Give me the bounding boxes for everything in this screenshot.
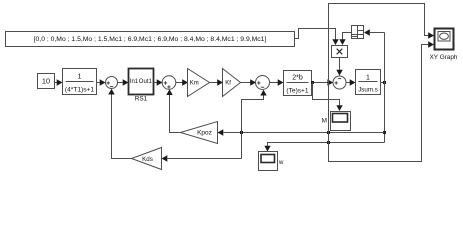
svg-text:(4*T1)s+1: (4*T1)s+1 xyxy=(65,87,94,94)
sum S1 xyxy=(106,77,118,89)
svg-text:XY Graph: XY Graph xyxy=(430,54,458,61)
gain Km xyxy=(188,69,210,97)
transfer fcn integrator 1/Jsum.s xyxy=(356,70,381,95)
wire node w to lookup table input (right side) xyxy=(364,29,385,35)
transfer fcn armature 2*b/((Te)s+1) xyxy=(284,71,312,96)
wire gain Kds to sum S1 bottom input xyxy=(108,89,131,159)
subsystem RS1 (In1 Out1) xyxy=(129,69,154,103)
gain Kds (mirrored) xyxy=(132,148,162,170)
wire gain Km to gain Kf xyxy=(210,79,224,85)
gain Kpoz (mirrored) xyxy=(181,122,218,144)
svg-text:Kpoz: Kpoz xyxy=(197,130,212,137)
gain Kf xyxy=(223,69,241,97)
svg-text:M: M xyxy=(322,118,327,125)
svg-text:1: 1 xyxy=(78,74,82,81)
svg-text:Km: Km xyxy=(190,81,199,87)
wire node w to scope w xyxy=(264,141,384,152)
svg-text:Out1: Out1 xyxy=(139,79,153,85)
wire gain Kf to sum S3 xyxy=(241,79,257,85)
svg-text:In1: In1 xyxy=(130,79,139,85)
wire product output to sum S4 top input xyxy=(336,58,342,76)
transfer fcn prefilter 1/((4*T1)s+1) xyxy=(63,69,97,95)
product block X (multiply) xyxy=(332,46,348,58)
wire sum S3 to armature block xyxy=(270,79,284,85)
wire RS1 to sum S2 xyxy=(154,79,163,85)
lookup table block xyxy=(352,26,364,39)
wire prefilter to sum S1 xyxy=(97,79,106,85)
wire node w loop to XY graph input 1 (top frame) xyxy=(329,4,435,143)
sum S2 xyxy=(162,76,176,90)
wire node w to gain Kpoz (feedback line) xyxy=(218,129,385,135)
svg-text:1: 1 xyxy=(366,75,370,82)
sum S3 xyxy=(256,76,270,90)
constant block 10 xyxy=(38,74,55,89)
svg-text:(Te)s+1: (Te)s+1 xyxy=(286,88,309,95)
svg-text:Kf: Kf xyxy=(225,81,231,87)
svg-text:Kds: Kds xyxy=(142,156,153,163)
wire constant 10 to prefilter xyxy=(55,79,63,85)
svg-text:10: 10 xyxy=(42,77,50,86)
wire sum S1 to subsystem RS1 xyxy=(118,79,129,85)
svg-text:w: w xyxy=(278,160,284,166)
svg-text:2*b: 2*b xyxy=(292,75,303,82)
svg-text:Jsum.s: Jsum.s xyxy=(358,87,378,94)
wire armature to sum S4 with junction node xyxy=(311,79,333,85)
wire integrator output stub to node w xyxy=(381,81,387,84)
wire sum S4 to integrator block xyxy=(346,79,356,85)
wire node w to sum S3 bottom input (back-emf) and down to gain Kds xyxy=(242,90,267,159)
svg-text:[0,0 ; 0,Mo ; 1.5,Mo ; 1.5,Mc1: [0,0 ; 0,Mo ; 1.5,Mo ; 1.5,Mc1 ; 6.9,Mc1… xyxy=(34,36,267,43)
wire sum S2 to gain Km xyxy=(176,79,188,85)
wire matrix constant to product block input 1 xyxy=(295,29,339,46)
wire gain Kpoz to sum S2 bottom input xyxy=(166,89,180,132)
XY graph block xyxy=(430,29,458,62)
svg-text:RS1: RS1 xyxy=(135,96,148,103)
wire armature junction to scope M xyxy=(313,83,343,112)
sum S4 xyxy=(333,76,346,89)
constant block: time/torque matrix [0,0 ; 0,Mo ...] xyxy=(6,32,295,47)
wire lookup table output to product block input 2 xyxy=(339,33,351,46)
scope M xyxy=(322,112,351,131)
scope w xyxy=(259,152,285,171)
wire to gain Kds input xyxy=(162,155,242,161)
node w vertical wire xyxy=(383,33,386,143)
wire node w branch to XY graph input 2 xyxy=(329,41,435,161)
